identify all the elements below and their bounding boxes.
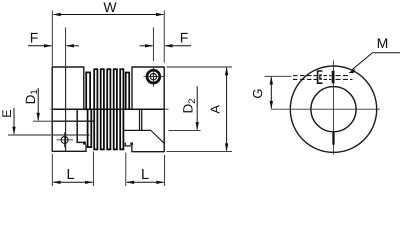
- svg-text:L: L: [141, 167, 149, 183]
- clamp screw hidden lines (front view): [293, 76, 353, 80]
- clamp screw slit bar (front view): [332, 71, 335, 84]
- svg-text:F: F: [180, 30, 189, 46]
- bellows convolution walls and caps: [85, 69, 130, 149]
- front view slit: [332, 132, 334, 145]
- left hub sleeve block: [83, 142, 86, 145]
- svg-text:A: A: [208, 105, 223, 114]
- right hub bore line (section): [123, 129, 150, 131]
- dimension L left: [52, 152, 93, 187]
- right hub outline: [132, 67, 164, 152]
- centerline left view: [51, 108, 169, 110]
- left hub bore line (section): [52, 120, 93, 122]
- dimension W: [53, 0, 165, 16]
- left hub slit line (section): [52, 134, 89, 136]
- front view horizontal centerline: [271, 108, 380, 110]
- dimension F left: [28, 28, 79, 67]
- svg-text:G: G: [250, 88, 265, 98]
- left hub sleeve step (section): [77, 109, 83, 142]
- svg-text:L: L: [66, 167, 74, 183]
- svg-text:M: M: [377, 35, 389, 51]
- section bore top edge (thick, on centerline): [52, 108, 164, 110]
- right hub sleeve step (section): [125, 143, 132, 152]
- dimension D2: [169, 86, 201, 130]
- wire W extension left: [51, 11, 53, 67]
- svg-text:E: E: [0, 109, 14, 117]
- dimension G: [250, 76, 292, 109]
- dimension D1: [23, 88, 57, 121]
- dimension E: [0, 108, 51, 135]
- dimension A: [167, 67, 233, 152]
- clamp screw right hub (socket head, top view): [144, 67, 164, 88]
- label M with leader: [348, 35, 400, 73]
- wire W extension right: [163, 11, 165, 63]
- right hub bore step double line: [139, 109, 141, 130]
- right hub slit chamfer diagonal: [151, 130, 164, 143]
- front view outer circle: [290, 66, 376, 152]
- left hub collar line: [65, 67, 67, 151]
- svg-text:F: F: [30, 30, 39, 46]
- front view vertical centerline: [333, 61, 335, 155]
- left hub sleeve corner: [85, 145, 87, 152]
- clamp screw hole left hub (section circle): [57, 132, 74, 147]
- right hub sleeve block: [130, 142, 133, 145]
- dimension F right: [140, 28, 192, 62]
- clamp screw head (front view, solid bracket): [318, 71, 323, 83]
- left hub outline (top + left + bottom): [52, 67, 86, 151]
- dimension L right: [126, 153, 165, 187]
- front view bore circle: [311, 87, 356, 132]
- svg-text:W: W: [103, 0, 117, 15]
